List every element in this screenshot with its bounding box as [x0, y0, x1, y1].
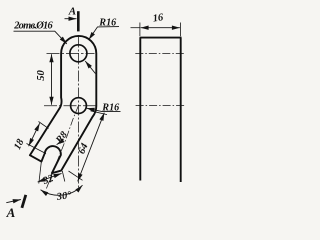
side view center line hole2 axis	[136, 105, 186, 107]
dimension 18 line with arrows	[29, 123, 40, 146]
hole 1 (top, dia 16)	[70, 45, 87, 62]
dimension 50 line with arrows	[51, 54, 53, 105]
side view top edge	[140, 37, 182, 39]
hole 2 (lower, dia 16)	[71, 98, 87, 114]
ext lines for 18	[39, 122, 49, 129]
dimension 32 line with arrows	[38, 173, 62, 182]
svg-text:2отв.Ø16: 2отв.Ø16	[13, 21, 53, 32]
dimension 16 line tail left	[131, 27, 141, 29]
angle 30 deg arc with arrows	[41, 185, 83, 195]
arm axis center line (30 deg)	[46, 106, 79, 190]
svg-text:R8: R8	[53, 130, 69, 147]
center line hole1 horizontal	[47, 52, 95, 54]
side view right edge	[180, 38, 182, 182]
svg-text:30°: 30°	[55, 190, 73, 203]
section arrow top	[65, 18, 77, 20]
svg-text:18: 18	[12, 137, 26, 151]
center line hole2 horizontal	[44, 105, 96, 107]
svg-text:32: 32	[41, 173, 55, 187]
vertical center line through both holes extended down	[77, 37, 79, 191]
side view center line hole1 axis	[135, 52, 186, 54]
section plane thick stroke top	[77, 11, 80, 31]
svg-text:A: A	[68, 5, 76, 17]
svg-text:16: 16	[152, 12, 165, 24]
main view outer contour of bracket plate	[30, 36, 96, 173]
dimension 16 line with arrows	[141, 27, 180, 29]
svg-text:50: 50	[36, 70, 47, 81]
dimension 16 ext lines	[139, 23, 141, 37]
ext lines for 32	[39, 162, 42, 184]
leader arrow to hole 1 lower right	[85, 61, 95, 74]
side view left edge	[139, 38, 141, 181]
svg-text:A: A	[6, 205, 16, 220]
section arrow bottom	[6, 200, 20, 203]
dimension 64 line with arrows	[78, 113, 105, 182]
ext lines for 64	[91, 111, 108, 115]
section plane thick stroke bottom	[22, 195, 26, 208]
